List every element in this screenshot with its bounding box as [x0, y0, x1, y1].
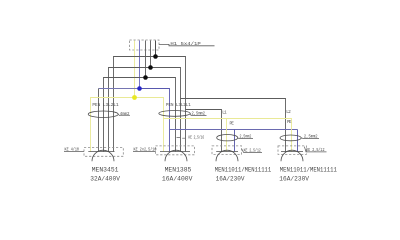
cable label KE 2,5/16 mid feed [177, 137, 182, 139]
wire PE vertical (yellow) in box [134, 41, 136, 98]
wire N drop socket 1 [98, 89, 100, 152]
junction dot L1 [153, 54, 158, 59]
wire N right branch to socket 2 [140, 89, 170, 152]
svg-text:32A/400V: 32A/400V [90, 176, 120, 183]
cable size label 2,5mm2 socket 2 [190, 113, 206, 115]
wire L2 vertical in box [150, 41, 152, 68]
socket 3 terminal line [216, 151, 238, 153]
wire N drop socket 3 [234, 130, 236, 152]
svg-text:16A/400V: 16A/400V [162, 176, 193, 183]
wire L2 left branch to socket 1 [109, 68, 151, 152]
cable marker ellipse socket 1 [88, 111, 118, 117]
socket 1 terminal line [88, 151, 114, 153]
svg-text:2,5mm2: 2,5mm2 [240, 136, 252, 140]
cable label KE 2,5/12 socket 4 [304, 147, 326, 152]
wire PE right branch to socket 2 (yellow) [135, 98, 164, 152]
wire L2 right branch to socket 2 [151, 68, 181, 152]
wire N vertical (blue) in box [139, 41, 141, 89]
svg-text:KE 2,5/12: KE 2,5/12 [244, 149, 262, 154]
junction dot PE (yellow) [132, 95, 137, 100]
svg-text:16A/230V: 16A/230V [216, 176, 245, 183]
junction dot N (blue) [137, 86, 142, 91]
svg-text:MEN3451: MEN3451 [92, 167, 119, 174]
svg-text:4mm2: 4mm2 [120, 113, 130, 117]
svg-text:PEN L3L2L1: PEN L3L2L1 [92, 103, 119, 108]
socket 4 dome arc [281, 150, 303, 161]
cable label KE 4/10 socket 1 [64, 150, 84, 152]
socket 2 terminal line [160, 151, 190, 153]
cable size label 2,5mm2 socket 3 [238, 137, 253, 140]
svg-text:2,5mm2: 2,5mm2 [304, 136, 318, 140]
junction dot L3 [143, 75, 148, 80]
distribution terminal box X1 (dashed) [130, 40, 160, 50]
junction dot L2 [148, 65, 153, 70]
wire L1 tap to socket 3 [186, 110, 222, 152]
cable size label 2,5mm2 socket 4 [301, 137, 319, 140]
wire PE drop socket 3 (yellow) [226, 119, 228, 152]
socket 1 dome arc [92, 150, 114, 161]
svg-text:H1 5x4/1P: H1 5x4/1P [170, 41, 201, 47]
cable marker ellipse socket 2 [159, 111, 190, 117]
svg-text:2,5mm2: 2,5mm2 [192, 113, 206, 117]
svg-text:KE 2x2,5/10: KE 2x2,5/10 [134, 147, 157, 152]
wire L1 vertical in box [155, 41, 157, 57]
socket 4 dashed housing box [278, 146, 306, 155]
cable label H1 5x4/1P leader [159, 44, 215, 45]
cable marker ellipse socket 3 [217, 135, 238, 141]
cable label KE 2,5/12 socket 3 [242, 149, 262, 153]
wire L1 left branch to socket 1 [114, 57, 156, 152]
socket 4 terminal line [281, 151, 303, 153]
wire L2 tap to socket 4 [181, 99, 286, 152]
socket 3 dome arc [216, 150, 238, 161]
svg-text:16A/230V: 16A/230V [279, 176, 309, 183]
cable size label 4mm2 socket 1 [118, 114, 130, 116]
cable label KE 2x2,5/10 socket 2 [133, 150, 156, 152]
wire L1 right branch to socket 2 [156, 57, 186, 152]
socket 3 dashed housing box [212, 146, 242, 155]
wire N left branch to socket 1 [99, 88, 140, 90]
socket 1 dashed housing box [84, 148, 123, 157]
svg-text:KE 4/10: KE 4/10 [65, 147, 80, 152]
wire L3 left branch to socket 1 [104, 78, 146, 152]
svg-text:MEN11011/MEN11111: MEN11011/MEN11111 [280, 167, 337, 174]
wire PE tap to sockets 3 and 4 (yellow) [164, 119, 292, 152]
svg-text:KE 2,5/12: KE 2,5/12 [306, 148, 325, 153]
svg-text:MEN1385: MEN1385 [165, 167, 192, 174]
wire PE left branch to socket 1 (yellow) [91, 98, 135, 152]
socket 2 dashed housing box [156, 146, 195, 155]
wire L3 right branch to socket 2 [146, 78, 176, 152]
svg-text:MEN11011/MEN11111: MEN11011/MEN11111 [215, 167, 272, 174]
socket 2 dome arc [165, 150, 187, 161]
wire L3 vertical in box [145, 41, 147, 78]
svg-text:KE 2,5/16: KE 2,5/16 [188, 136, 204, 141]
wire N tap to sockets 3 and 4 [170, 129, 298, 131]
wire N drop socket 4 [297, 130, 299, 152]
cable marker ellipse socket 4 [280, 135, 301, 141]
svg-text:PEN L3L2L1: PEN L3L2L1 [166, 103, 191, 108]
